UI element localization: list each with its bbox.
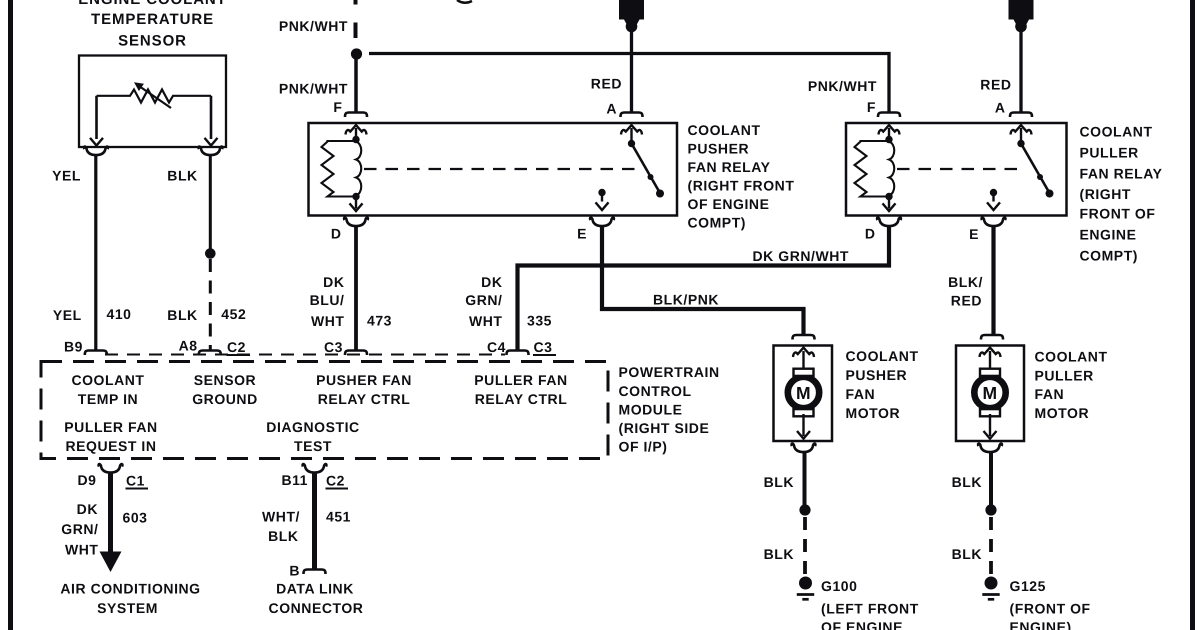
svg-text:A: A: [995, 100, 1006, 116]
svg-text:YEL: YEL: [52, 168, 81, 184]
svg-text:BLK: BLK: [764, 546, 794, 562]
right page border: [1190, 0, 1195, 630]
svg-text:C2: C2: [326, 473, 345, 489]
svg-text:DK: DK: [323, 274, 344, 290]
svg-text:COOLANT: COOLANT: [1035, 349, 1108, 365]
K2 E contact: [987, 189, 1000, 210]
motor M2 coolant puller fan motor: [981, 335, 1003, 340]
splice junction dot: [799, 504, 810, 515]
K1 pin E connector: [590, 218, 614, 227]
connector row dashed line: [105, 354, 505, 356]
K1 coil: [322, 128, 363, 211]
svg-text:PULLER: PULLER: [1035, 368, 1094, 384]
label POWERTRAIN CONTROL MODULE: [619, 364, 720, 455]
svg-text:COMPT): COMPT): [1080, 248, 1139, 264]
svg-text:BLK: BLK: [268, 528, 298, 544]
svg-text:COOLANT: COOLANT: [1080, 124, 1153, 140]
svg-text:PUSHER: PUSHER: [846, 367, 908, 383]
svg-text:G100: G100: [821, 578, 857, 594]
svg-text:SENSOR: SENSOR: [118, 33, 187, 50]
svg-text:COOLANT: COOLANT: [846, 348, 919, 364]
svg-text:PNK/WHT: PNK/WHT: [808, 78, 877, 94]
wire BLK dashed to G100: [803, 517, 807, 574]
svg-text:F: F: [867, 99, 876, 115]
wire BLK motor M2: [989, 453, 993, 506]
K2 coil: [855, 128, 896, 211]
svg-text:OF I/P): OF I/P): [619, 439, 668, 455]
svg-text:WHT: WHT: [469, 313, 503, 329]
label COOLANT PUSHER FAN MOTOR: [846, 348, 919, 421]
svg-text:PNK/WHT: PNK/WHT: [279, 18, 348, 34]
sensor box: [79, 56, 226, 148]
ground G100: [797, 577, 814, 600]
motor M1 coolant pusher fan motor: [793, 335, 815, 340]
svg-text:ENGINE): ENGINE): [1010, 619, 1072, 630]
label COOLANT PUSHER FAN RELAY: [688, 122, 795, 231]
K1 mechanical link dashed: [364, 168, 637, 170]
terminal B11 connector: [303, 464, 327, 473]
label ENGINE COOLANT TEMPERATURE SENSOR: [78, 0, 226, 50]
svg-text:PUSHER: PUSHER: [688, 141, 750, 157]
svg-text:C2: C2: [227, 339, 246, 355]
svg-text:F: F: [333, 99, 342, 115]
svg-text:MOTOR: MOTOR: [1035, 405, 1090, 421]
svg-text:WHT: WHT: [65, 542, 99, 558]
svg-text:DK: DK: [77, 501, 98, 517]
svg-text:D: D: [331, 226, 342, 242]
svg-text:BLK: BLK: [167, 307, 197, 323]
svg-text:BLK/PNK: BLK/PNK: [653, 292, 719, 308]
splice junction dot: [985, 504, 996, 515]
svg-text:BLU/: BLU/: [310, 292, 345, 308]
svg-text:D: D: [865, 226, 876, 242]
svg-text:473: 473: [367, 313, 392, 329]
svg-text:A: A: [606, 101, 617, 117]
svg-text:REQUEST IN: REQUEST IN: [65, 438, 156, 454]
K2 entry arrow A: [1011, 125, 1032, 134]
svg-text:PULLER: PULLER: [1080, 145, 1139, 161]
label DK GRN/WHT stacked: [465, 274, 502, 329]
svg-text:(LEFT FRONT: (LEFT FRONT: [821, 601, 919, 617]
svg-text:A8: A8: [179, 338, 198, 354]
svg-text:CONTROL: CONTROL: [619, 383, 692, 399]
svg-text:B11: B11: [281, 472, 308, 488]
svg-text:WHT: WHT: [311, 313, 345, 329]
label DK GRN/WHT stacked: [61, 501, 98, 558]
relay K2 coolant puller fan relay box: [846, 123, 1067, 216]
wire BLK/RED from K2 pin E to puller motor: [991, 227, 995, 335]
PCM pin function labels row 1: [71, 372, 567, 407]
svg-text:COMPT): COMPT): [688, 215, 747, 231]
sensor left leg wire: [95, 96, 98, 139]
svg-text:C4: C4: [487, 339, 506, 355]
svg-text:BLK/: BLK/: [948, 274, 983, 290]
label COOLANT PULLER FAN MOTOR: [1035, 349, 1108, 422]
splice S108 junction dot: [205, 248, 216, 259]
svg-text:YEL: YEL: [53, 307, 82, 323]
wire DK GRN/WHT 335 from K2 pin D to PCM C4: [518, 227, 890, 351]
wire PNK/WHT down to F of left relay: [354, 58, 358, 112]
relay K1 coolant pusher fan relay box: [309, 123, 678, 216]
wire DK BLU/WHT 473: [354, 227, 358, 351]
wire BLK 452 solid part: [209, 156, 212, 251]
terminal D9 connector: [99, 464, 123, 473]
svg-text:C1: C1: [126, 473, 145, 489]
svg-text:RELAY CTRL: RELAY CTRL: [318, 391, 411, 407]
ground G125: [982, 577, 999, 600]
wire DK GRN/WHT 603: [108, 473, 113, 552]
svg-text:MOTOR: MOTOR: [846, 405, 901, 421]
svg-text:DK: DK: [481, 274, 502, 290]
svg-text:DK GRN/WHT: DK GRN/WHT: [753, 248, 850, 264]
svg-text:BLK: BLK: [952, 474, 982, 490]
svg-text:410: 410: [107, 306, 132, 322]
left page border: [8, 0, 13, 630]
svg-text:FAN RELAY: FAN RELAY: [1080, 166, 1163, 182]
PCM pin function labels row 2: [64, 419, 359, 454]
K1 entry arrow F: [346, 125, 367, 134]
svg-text:DATA LINK: DATA LINK: [276, 581, 354, 597]
sensor pin connector right: [199, 147, 223, 156]
wire BLK/PNK from K1 pin E to pusher motor: [602, 227, 804, 335]
sensor right leg wire: [210, 96, 213, 139]
svg-text:(RIGHT: (RIGHT: [1080, 186, 1132, 202]
svg-text:FAN RELAY: FAN RELAY: [688, 159, 771, 175]
label DK BLU/WHT: [310, 274, 345, 329]
svg-text:MODULE: MODULE: [619, 402, 683, 418]
splice junction dot: [351, 48, 362, 59]
svg-text:RED: RED: [980, 77, 1011, 93]
svg-text:PULLER FAN: PULLER FAN: [64, 419, 157, 435]
svg-text:RED: RED: [591, 76, 622, 92]
svg-text:COOLANT: COOLANT: [71, 372, 144, 388]
svg-text:RED: RED: [951, 293, 982, 309]
svg-text:(FRONT OF: (FRONT OF: [1010, 601, 1091, 617]
PCM dashed box powertrain control module: [41, 362, 608, 459]
svg-text:OF ENGINE: OF ENGINE: [688, 196, 770, 212]
svg-text:(RIGHT FRONT: (RIGHT FRONT: [688, 178, 795, 194]
wire PNK/WHT dashed feed: [354, 0, 358, 47]
svg-text:451: 451: [326, 509, 351, 525]
svg-text:PULLER FAN: PULLER FAN: [474, 372, 567, 388]
sensor pin connector left: [84, 147, 108, 156]
svg-text:E: E: [577, 226, 587, 242]
svg-text:PNK/WHT: PNK/WHT: [279, 81, 348, 97]
label WHT/BLK stacked: [262, 509, 300, 545]
K1 switch: [628, 128, 664, 198]
terminal C4: [507, 351, 529, 356]
thermistor RT (variable resistor): [97, 86, 212, 108]
K2 pin D connector: [877, 218, 901, 227]
svg-text:GRN/: GRN/: [465, 292, 502, 308]
K2 mechanical link dashed: [897, 168, 1026, 170]
fusible link feed rect right: [1009, 0, 1034, 32]
svg-text:SYSTEM: SYSTEM: [97, 600, 158, 616]
svg-text:B: B: [289, 563, 300, 579]
svg-text:DIAGNOSTIC: DIAGNOSTIC: [266, 419, 359, 435]
terminal A8: [199, 351, 221, 356]
K2 pin E connector: [982, 218, 1006, 227]
top edge squiggle remnant: [457, 0, 472, 3]
K1 entry arrow A: [621, 125, 642, 134]
svg-text:COOLANT: COOLANT: [688, 122, 761, 138]
svg-text:452: 452: [221, 306, 246, 322]
svg-text:B9: B9: [64, 339, 83, 355]
terminal C3: [345, 351, 367, 356]
svg-text:BLK: BLK: [764, 474, 794, 490]
svg-text:ENGINE: ENGINE: [1080, 227, 1137, 243]
svg-text:335: 335: [527, 313, 552, 329]
svg-text:BLK: BLK: [167, 168, 197, 184]
svg-text:C3: C3: [324, 339, 343, 355]
K1 pin D connector: [344, 218, 368, 227]
svg-text:TEMPERATURE: TEMPERATURE: [91, 11, 214, 28]
wire YEL 410: [94, 156, 97, 351]
svg-text:OF ENGINE: OF ENGINE: [821, 619, 903, 630]
svg-text:603: 603: [123, 510, 148, 526]
svg-text:ENGINE COOLANT: ENGINE COOLANT: [78, 0, 226, 8]
svg-text:FAN: FAN: [1035, 386, 1065, 402]
wire BLK dashed to G125: [989, 517, 993, 574]
svg-text:BLK: BLK: [952, 546, 982, 562]
K1 E contact: [596, 189, 609, 210]
svg-text:C3: C3: [534, 339, 553, 355]
svg-text:TEMP IN: TEMP IN: [78, 391, 138, 407]
terminal B9: [85, 351, 107, 356]
label COOLANT PULLER FAN RELAY: [1080, 124, 1163, 264]
svg-text:TEST: TEST: [294, 438, 332, 454]
thermistor arrow head: [134, 82, 144, 91]
svg-text:E: E: [969, 226, 979, 242]
svg-text:GROUND: GROUND: [192, 391, 258, 407]
svg-text:POWERTRAIN: POWERTRAIN: [619, 364, 720, 380]
wire PNK/WHT horizontal to right relay: [369, 54, 889, 113]
svg-text:AIR CONDITIONING: AIR CONDITIONING: [60, 581, 200, 597]
svg-text:FRONT OF: FRONT OF: [1080, 206, 1156, 222]
svg-text:RELAY CTRL: RELAY CTRL: [475, 391, 568, 407]
wire WHT/BLK 451: [312, 473, 317, 570]
svg-text:WHT/: WHT/: [262, 509, 300, 525]
svg-text:GRN/: GRN/: [61, 521, 98, 537]
K2 switch: [1017, 128, 1053, 198]
fusible link feed rect left: [619, 0, 644, 32]
svg-text:(RIGHT SIDE: (RIGHT SIDE: [619, 420, 710, 436]
svg-text:G125: G125: [1010, 578, 1046, 594]
wire RED to A of left relay: [630, 31, 633, 112]
arrow to air conditioning system: [100, 552, 122, 573]
svg-text:FAN: FAN: [846, 386, 876, 402]
svg-text:SENSOR: SENSOR: [194, 372, 256, 388]
svg-text:D9: D9: [78, 472, 97, 488]
wire BLK motor M1: [803, 453, 807, 506]
wire BLK 452 dashed part: [209, 259, 212, 351]
svg-text:CONNECTOR: CONNECTOR: [269, 600, 364, 616]
label BLK/RED: [948, 274, 983, 309]
K2 entry arrow F: [879, 125, 900, 134]
svg-text:PUSHER FAN: PUSHER FAN: [316, 372, 412, 388]
wire RED to A of right relay: [1019, 31, 1022, 112]
